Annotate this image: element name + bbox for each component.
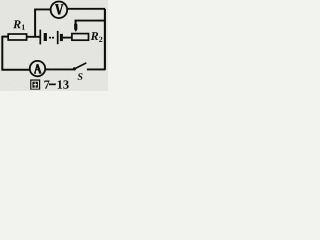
slider arrowhead <box>74 24 77 32</box>
svg-text:R: R <box>12 17 21 31</box>
svg-text:R: R <box>90 29 99 43</box>
ammeter A <box>30 61 45 76</box>
svg-text:S: S <box>77 72 83 83</box>
wire: voltmeter left lead <box>34 8 50 10</box>
svg-text:2: 2 <box>99 35 103 44</box>
wire: top-left stub to R1 <box>1 36 7 38</box>
battery cell 2 short thick plate <box>60 34 63 41</box>
voltmeter V <box>51 2 68 19</box>
svg-text:7: 7 <box>44 78 50 91</box>
resistor R2 (rheostat body) <box>72 34 89 41</box>
wire: battery to R2 <box>63 37 72 39</box>
rheostat slider vertical wire <box>75 21 77 26</box>
svg-text:13: 13 <box>57 78 70 91</box>
background <box>0 0 108 91</box>
switch pivot dot <box>73 67 76 70</box>
battery dot 2 <box>52 37 54 39</box>
wire: voltmeter tap vertical at node J1 <box>34 9 36 36</box>
svg-text:1: 1 <box>21 23 25 32</box>
caption dash <box>49 84 56 86</box>
battery cell 1 short thick plate <box>44 33 47 41</box>
battery cell 1 long plate <box>39 30 41 45</box>
wire: switch contact to right corner <box>87 68 106 70</box>
wire: ammeter to switch <box>46 68 73 70</box>
wire: R1 to battery <box>27 36 40 38</box>
wire: left vertical <box>1 37 3 70</box>
battery cell 2 long plate <box>57 31 59 44</box>
wire: right vertical <box>104 9 106 70</box>
resistor R1 <box>8 34 26 40</box>
wire: voltmeter right lead <box>67 8 105 10</box>
switch blade <box>76 63 87 69</box>
caption black box with white 图 glyph <box>30 79 40 89</box>
rheostat slider horizontal wire <box>75 20 106 22</box>
wire: bottom-left horizontal to ammeter <box>1 69 30 71</box>
battery dot 1 <box>49 37 51 39</box>
